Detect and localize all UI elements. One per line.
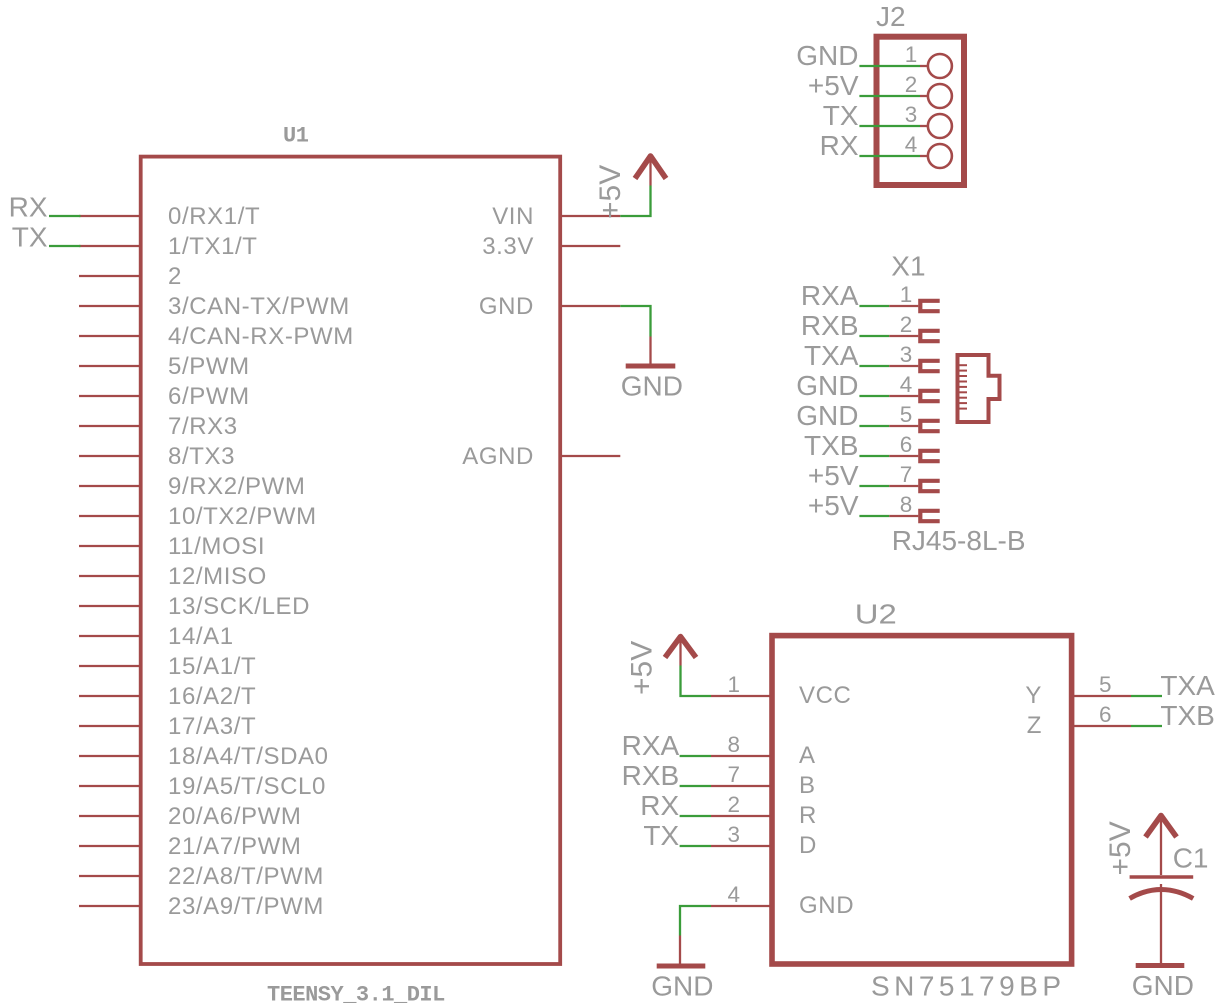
U2 pin 6 (Z) [1027, 702, 1131, 739]
wire net GND to J2 pin 1 [796, 40, 920, 71]
svg-text:GND: GND [796, 400, 858, 431]
svg-text:J2: J2 [876, 1, 906, 32]
svg-text:TXA: TXA [804, 340, 859, 371]
wire net RX to U1 pin 0 [49, 215, 81, 217]
svg-text:7: 7 [727, 762, 740, 787]
U2 pin 2 (R) [711, 792, 817, 829]
svg-text:13/SCK/LED: 13/SCK/LED [168, 593, 310, 620]
U2 pin 8 (A) [711, 732, 816, 769]
U1 pin 20/A6/PWM [79, 803, 301, 830]
wire net RX to J2 pin 4 [820, 130, 920, 161]
svg-text:5: 5 [900, 402, 913, 427]
wire net GND to X1 pin 5 [796, 400, 889, 431]
U1 reference designator label [283, 124, 309, 149]
U1 pin 11/MOSI [79, 533, 265, 560]
svg-text:Y: Y [1025, 682, 1042, 709]
U1 value label TEENSY_3.1_DIL [267, 983, 445, 1007]
svg-text:2: 2 [905, 72, 918, 97]
wire net RXB to U2 [622, 760, 711, 791]
svg-text:X1: X1 [891, 251, 925, 282]
X1 RJ45 jack outline [958, 355, 1000, 422]
svg-text:8: 8 [727, 732, 740, 757]
X1 pin 6 contact fork [889, 432, 940, 461]
svg-text:RX: RX [9, 192, 48, 223]
U2 pin 7 (B) [711, 762, 816, 799]
svg-text:+5V: +5V [808, 70, 859, 101]
X1 pin 7 contact fork [889, 462, 940, 491]
svg-text:1: 1 [727, 672, 740, 697]
U1 pin 0/RX1/T [79, 203, 260, 230]
svg-text:4: 4 [905, 132, 918, 157]
J2 pin 1 circle [905, 42, 952, 78]
U2 pin 5 (Y) [1025, 672, 1131, 709]
supply symbol +5V at U1 VIN [635, 156, 666, 186]
X1 pin 5 contact fork [889, 402, 940, 431]
svg-text:TX: TX [823, 100, 859, 131]
svg-text:8/TX3: 8/TX3 [168, 443, 235, 470]
wire net GND to X1 pin 4 [796, 370, 889, 401]
svg-text:GND: GND [621, 371, 683, 402]
svg-text:RXB: RXB [622, 760, 680, 791]
svg-text:19/A5/T/SCL0: 19/A5/T/SCL0 [168, 773, 326, 800]
svg-text:R: R [799, 802, 817, 829]
svg-text:17/A3/T: 17/A3/T [168, 713, 256, 740]
J2 pin 4 circle [905, 132, 952, 168]
U2 reference designator label [855, 599, 897, 630]
U1 pin 13/SCK/LED [79, 593, 310, 620]
U1 pin VIN [492, 203, 620, 230]
svg-text:4/CAN-RX-PWM: 4/CAN-RX-PWM [168, 323, 354, 350]
wire net +5V to U2 VCC [681, 666, 712, 697]
svg-text:10/TX2/PWM: 10/TX2/PWM [168, 503, 317, 530]
wire net TX to J2 pin 3 [823, 100, 920, 131]
svg-text:TEENSY_3.1_DIL: TEENSY_3.1_DIL [267, 983, 445, 1007]
svg-text:0/RX1/T: 0/RX1/T [168, 203, 260, 230]
ground symbol below U1 GND [621, 337, 683, 402]
svg-text:23/A9/T/PWM: 23/A9/T/PWM [168, 893, 324, 920]
svg-text:7: 7 [900, 462, 913, 487]
+5V label rotated [594, 165, 627, 219]
svg-text:GND: GND [479, 293, 534, 320]
svg-text:TX: TX [12, 222, 48, 253]
svg-text:TXB: TXB [804, 430, 858, 461]
svg-text:2: 2 [168, 263, 182, 290]
svg-text:TX: TX [643, 820, 679, 851]
svg-text:+5V: +5V [1104, 821, 1137, 875]
U1 pin 15/A1/T [79, 653, 256, 680]
svg-text:GND: GND [1132, 970, 1194, 1001]
wire net TX to U2 [643, 820, 711, 851]
svg-text:RXB: RXB [801, 310, 859, 341]
svg-text:1: 1 [905, 42, 918, 67]
wire net RXA to U2 [622, 730, 711, 761]
ground symbol below U2 [651, 936, 713, 1002]
svg-text:5/PWM: 5/PWM [168, 353, 250, 380]
U1 pin 14/A1 [79, 623, 234, 650]
U1 pin 12/MISO [79, 563, 267, 590]
U1 pin 16/A2/T [79, 683, 256, 710]
capacitor C1 [1130, 843, 1209, 964]
connector J2 body [877, 37, 965, 185]
wire net TXA from U2 [1131, 670, 1215, 701]
wire net +5V to X1 pin 7 [808, 460, 889, 491]
U1 pin 5/PWM [79, 353, 250, 380]
svg-text:RJ45-8L-B: RJ45-8L-B [892, 525, 1026, 556]
svg-text:4: 4 [727, 882, 740, 907]
svg-text:16/A2/T: 16/A2/T [168, 683, 256, 710]
svg-text:RX: RX [640, 790, 679, 821]
ground symbol below C1 [1132, 966, 1194, 1002]
+5V label rotated at U2 [626, 641, 659, 695]
svg-text:+5V: +5V [594, 165, 627, 219]
svg-text:VCC: VCC [799, 682, 851, 709]
svg-text:3.3V: 3.3V [482, 233, 534, 260]
svg-text:1: 1 [900, 282, 913, 307]
svg-text:11/MOSI: 11/MOSI [168, 533, 265, 560]
svg-text:GND: GND [799, 892, 854, 919]
U1 pin 3.3V [482, 233, 620, 260]
svg-text:D: D [799, 832, 817, 859]
X1 value label RJ45-8L-B [892, 525, 1026, 556]
wire net +5V to J2 pin 2 [808, 70, 920, 101]
svg-text:3: 3 [905, 102, 918, 127]
svg-text:3/CAN-TX/PWM: 3/CAN-TX/PWM [168, 293, 350, 320]
U1 pin 23/A9/T/PWM [79, 893, 324, 920]
node TX label [12, 222, 48, 253]
U1 pin 18/A4/T/SDA0 [79, 743, 329, 770]
svg-text:RXA: RXA [801, 280, 859, 311]
U1 pin 7/RX3 [79, 413, 238, 440]
J2 pin 3 circle [905, 102, 952, 138]
svg-text:6/PWM: 6/PWM [168, 383, 250, 410]
wire net GND from U1 GND pin [620, 306, 650, 337]
svg-text:18/A4/T/SDA0: 18/A4/T/SDA0 [168, 743, 329, 770]
U1 pin 1/TX1/T [79, 233, 258, 260]
U2 pin 1 (VCC) [711, 672, 851, 709]
svg-text:3: 3 [900, 342, 913, 367]
svg-text:3: 3 [727, 822, 740, 847]
svg-text:20/A6/PWM: 20/A6/PWM [168, 803, 301, 830]
J2 pin 2 circle [905, 72, 952, 108]
U2 value label SN75179BP [871, 970, 1061, 1001]
node RX label [9, 192, 48, 223]
X1 pin 3 contact fork [889, 342, 940, 371]
svg-text:U1: U1 [283, 124, 309, 149]
IC U1 TEENSY_3.1_DIL body [141, 157, 561, 964]
svg-text:TXB: TXB [1160, 700, 1214, 731]
svg-text:9/RX2/PWM: 9/RX2/PWM [168, 473, 305, 500]
U1 pin 10/TX2/PWM [79, 503, 317, 530]
wire net +5V from U1 VIN [620, 186, 650, 217]
svg-text:21/A7/PWM: 21/A7/PWM [168, 833, 301, 860]
svg-text:GND: GND [796, 370, 858, 401]
svg-text:AGND: AGND [462, 443, 534, 470]
svg-text:SN75179BP: SN75179BP [871, 970, 1061, 1001]
U1 pin 21/A7/PWM [79, 833, 301, 860]
svg-text:22/A8/T/PWM: 22/A8/T/PWM [168, 863, 324, 890]
U1 pin 19/A5/T/SCL0 [79, 773, 326, 800]
svg-text:B: B [799, 772, 816, 799]
wire net +5V to X1 pin 8 [808, 490, 889, 521]
svg-text:RXA: RXA [622, 730, 680, 761]
U1 pin 3/CAN-TX/PWM [79, 293, 350, 320]
X1 pin 2 contact fork [889, 312, 940, 341]
U1 pin 6/PWM [79, 383, 250, 410]
U1 pin 8/TX3 [79, 443, 235, 470]
svg-text:+5V: +5V [808, 460, 859, 491]
wire net TXB from U2 [1131, 700, 1215, 731]
U1 pin 17/A3/T [79, 713, 256, 740]
svg-text:14/A1: 14/A1 [168, 623, 234, 650]
svg-text:+5V: +5V [626, 641, 659, 695]
svg-text:GND: GND [796, 40, 858, 71]
svg-text:Z: Z [1027, 712, 1042, 739]
svg-text:12/MISO: 12/MISO [168, 563, 267, 590]
U1 pin AGND [462, 443, 620, 470]
wire net RXA to X1 pin 1 [801, 280, 889, 311]
wire net RX to U2 [640, 790, 711, 821]
U1 pin 9/RX2/PWM [79, 473, 305, 500]
U2 pin 4 (GND) [711, 882, 854, 919]
svg-text:VIN: VIN [492, 203, 534, 230]
X1 pin 1 contact fork [889, 282, 940, 311]
svg-text:U2: U2 [855, 599, 897, 630]
svg-text:5: 5 [1099, 672, 1112, 697]
X1 pin 4 contact fork [889, 372, 940, 401]
wire net RXB to X1 pin 2 [801, 310, 889, 341]
wire net TX to U1 pin 1 [49, 245, 81, 247]
svg-text:RX: RX [820, 130, 859, 161]
wire net GND from U2 pin 4 [680, 906, 711, 936]
J2 reference designator label [876, 1, 906, 32]
svg-text:+5V: +5V [808, 490, 859, 521]
supply symbol +5V at U2 VCC [665, 637, 696, 666]
X1 pin 8 contact fork [889, 492, 940, 521]
svg-text:6: 6 [900, 432, 913, 457]
U1 pin 22/A8/T/PWM [79, 863, 324, 890]
wire net TXA to X1 pin 3 [804, 340, 889, 371]
svg-text:2: 2 [727, 792, 740, 817]
+5V label rotated at C1 [1104, 821, 1137, 875]
U1 pin 2 [79, 263, 182, 290]
svg-text:7/RX3: 7/RX3 [168, 413, 238, 440]
supply symbol +5V at C1 [1146, 816, 1177, 876]
connector X1 label [891, 251, 925, 282]
U2 pin 3 (D) [711, 822, 817, 859]
svg-text:C1: C1 [1173, 843, 1209, 874]
svg-text:TXA: TXA [1160, 670, 1215, 701]
U1 pin 4/CAN-RX-PWM [79, 323, 354, 350]
U1 pin GND [479, 293, 620, 320]
svg-text:6: 6 [1099, 702, 1112, 727]
IC U2 SN75179BP body [772, 636, 1072, 964]
svg-text:15/A1/T: 15/A1/T [168, 653, 256, 680]
wire net TXB to X1 pin 6 [804, 430, 889, 461]
svg-text:8: 8 [900, 492, 913, 517]
svg-text:1/TX1/T: 1/TX1/T [168, 233, 258, 260]
svg-text:2: 2 [900, 312, 913, 337]
svg-text:4: 4 [900, 372, 913, 397]
svg-text:A: A [799, 742, 816, 769]
svg-text:GND: GND [651, 971, 713, 1002]
